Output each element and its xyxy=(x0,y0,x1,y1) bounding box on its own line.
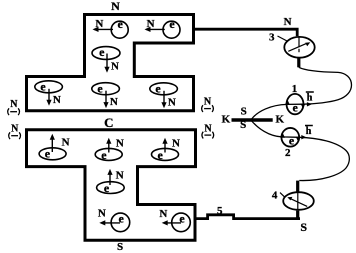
svg-text:N: N xyxy=(110,96,118,108)
wire upper S-curve (galv 3 to electron 1 to switch pivot) xyxy=(251,67,351,119)
svg-text:e: e xyxy=(158,148,164,162)
core C top (upper magnet block) xyxy=(27,15,194,111)
svg-text:S: S xyxy=(300,220,307,234)
svg-text:N: N xyxy=(116,138,124,150)
label h-bar (electron 1) xyxy=(306,92,314,104)
svg-text:N: N xyxy=(95,18,103,30)
label N(-) left of upper block xyxy=(8,99,20,115)
wire stub below galvanometer 4 xyxy=(296,211,299,220)
electron spin B1 (bottom bar of upper block, arrow down) xyxy=(35,80,63,106)
electron spin A1 (top bar, arrow left) xyxy=(93,17,129,38)
svg-text:e: e xyxy=(289,133,295,147)
electron 1 (free electron on wire) xyxy=(285,94,312,115)
svg-text:N: N xyxy=(98,208,106,220)
svg-text:S: S xyxy=(240,119,246,131)
wire from upper block to galvanometer 3 xyxy=(194,29,297,36)
svg-text:N: N xyxy=(204,96,212,107)
core S bottom (lower magnet block) xyxy=(27,130,196,241)
electron spin U1 (top bar of lower block, arrow up) xyxy=(39,134,70,161)
svg-text:e: e xyxy=(45,147,51,161)
svg-text:e: e xyxy=(101,148,107,162)
label N(-) right of upper block xyxy=(202,96,214,112)
electron spin A4 (bottom bar of lower block, arrow left) xyxy=(159,208,190,232)
svg-text:N: N xyxy=(116,170,124,182)
electron spin U2 (top bar of lower block, arrow up) xyxy=(95,138,124,162)
svg-text:e: e xyxy=(40,80,46,94)
svg-text:1: 1 xyxy=(292,83,298,95)
wire stub below galvanometer 3 xyxy=(297,58,300,68)
svg-text:N: N xyxy=(11,123,19,134)
svg-text:e: e xyxy=(104,181,110,195)
label N(-) left of lower block xyxy=(9,123,21,139)
svg-text:e: e xyxy=(118,17,124,31)
label N(-) right of lower block xyxy=(202,123,214,138)
svg-text:4: 4 xyxy=(272,189,278,201)
svg-text:h: h xyxy=(307,93,313,104)
wire bottom with switch 5 xyxy=(196,215,301,219)
svg-text:2: 2 xyxy=(285,147,291,159)
svg-text:N: N xyxy=(10,99,18,110)
svg-text:3: 3 xyxy=(269,32,275,44)
svg-text:N: N xyxy=(62,137,70,149)
svg-text:N: N xyxy=(204,123,212,134)
svg-text:h: h xyxy=(306,126,312,137)
wire stub above galvanometer 4 xyxy=(296,181,299,193)
electron 2 (free electron on wire) xyxy=(280,128,306,147)
svg-text:5: 5 xyxy=(217,205,223,217)
svg-text:C: C xyxy=(104,115,113,130)
galvanometer 4 xyxy=(283,192,314,210)
svg-text:e: e xyxy=(155,82,161,96)
svg-text:S: S xyxy=(241,106,247,118)
svg-text:e: e xyxy=(293,100,299,114)
svg-text:e: e xyxy=(99,45,105,59)
svg-text:K: K xyxy=(222,113,231,125)
svg-text:N: N xyxy=(284,16,292,28)
electron spin A2 (top bar, arrow left) xyxy=(145,17,181,38)
svg-text:N: N xyxy=(159,208,167,220)
svg-text:e: e xyxy=(169,17,175,31)
svg-text:N: N xyxy=(147,18,155,30)
switch K bar xyxy=(232,118,273,122)
label h-bar (electron 2) xyxy=(305,126,313,137)
svg-text:N: N xyxy=(168,96,176,108)
svg-text:e: e xyxy=(97,82,103,96)
electron spin B0 (stem of upper block, arrow down) xyxy=(92,45,120,73)
wire lower S-curve (switch pivot to electron 2 to galv 4) xyxy=(251,121,349,181)
galvanometer 3 xyxy=(284,37,314,58)
svg-text:K: K xyxy=(276,114,285,126)
svg-text:N: N xyxy=(111,0,120,13)
electron spin B3 (bottom bar of upper block, arrow down) xyxy=(150,82,178,109)
electron spin A3 (bottom bar of lower block, arrow left) xyxy=(98,208,130,232)
svg-text:S: S xyxy=(117,241,123,253)
svg-text:N: N xyxy=(172,138,180,150)
svg-text:N: N xyxy=(111,60,119,72)
electron spin B2 (bottom bar of upper block, arrow down) xyxy=(92,82,120,109)
electron spin U3 (top bar of lower block, arrow up) xyxy=(152,138,181,162)
svg-text:N: N xyxy=(53,94,61,106)
electron spin U0 (stem of lower block, arrow up) xyxy=(97,169,125,195)
